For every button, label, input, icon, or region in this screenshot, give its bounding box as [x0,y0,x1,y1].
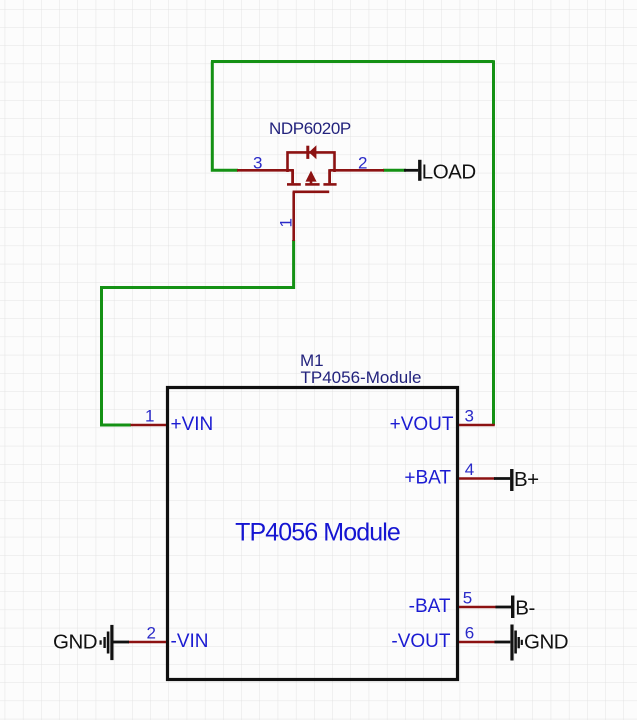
ground GND right [495,625,569,661]
svg-text:2: 2 [358,153,367,172]
Q1 pin 1 lead [292,192,295,241]
svg-text:2: 2 [147,624,156,643]
svg-text:-VIN: -VIN [171,631,209,652]
svg-text:4: 4 [465,460,474,479]
M1 pin 3 +VOUT [390,407,495,436]
transistor Q1 NDP6020P symbol body [287,152,337,191]
M1 pin 5 -BAT [409,589,496,618]
wire: Q1 pin1 down-left to M1 +VIN [102,240,294,425]
wire: Q1 pin2 to LOAD port [383,169,406,172]
wire: top horizontal [211,60,494,63]
svg-text:LOAD: LOAD [422,160,476,183]
Q1 source arrow [306,171,317,182]
port LOAD [404,160,476,184]
svg-text:+BAT: +BAT [404,468,451,489]
svg-text:NDP6020P: NDP6020P [269,119,351,138]
wire: Q1 pin3 left to top loop [212,62,238,171]
svg-text:TP4056 Module: TP4056 Module [235,519,400,547]
wire: right vertical down to M1 +VOUT [492,60,495,425]
svg-text:GND: GND [524,631,568,654]
svg-text:+VOUT: +VOUT [390,414,454,435]
svg-text:1: 1 [277,218,296,227]
M1 pin 4 +BAT [404,460,495,489]
M1 pin 2 -VIN [128,624,209,653]
svg-text:B+: B+ [514,468,539,491]
port B+ [494,468,539,491]
svg-text:1: 1 [145,407,154,426]
svg-text:3: 3 [465,407,474,426]
svg-text:-VOUT: -VOUT [391,631,451,652]
Q1 body diode triangle [309,145,317,159]
Q1 pin 2 lead [330,169,384,172]
port B- [496,596,535,620]
svg-text:-BAT: -BAT [409,596,451,617]
svg-text:6: 6 [465,624,474,643]
module M1 TP4056-Module box [168,388,458,680]
svg-text:TP4056-Module: TP4056-Module [301,368,422,387]
M1 pin 6 -VOUT [391,624,495,653]
svg-text:3: 3 [253,153,262,172]
Q1 pin 3 lead [237,169,294,172]
svg-text:+VIN: +VIN [171,414,214,435]
svg-text:5: 5 [463,589,472,608]
svg-text:GND: GND [53,631,97,654]
svg-text:B-: B- [515,596,535,619]
ground GND left [53,625,129,660]
M1 pin 1 +VIN [131,407,214,436]
Q1 body diode cathode bar [306,146,309,159]
svg-text:M1: M1 [300,351,324,370]
